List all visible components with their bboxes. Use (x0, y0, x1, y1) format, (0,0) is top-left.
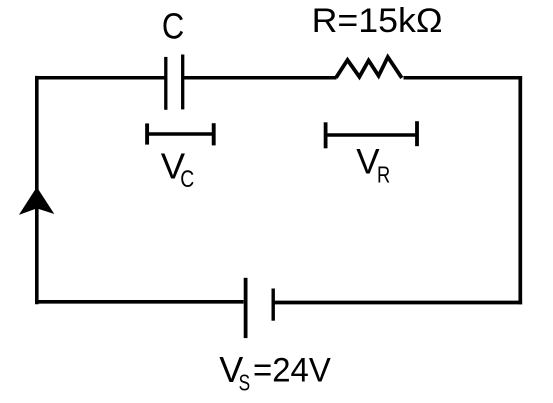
current direction arrow (19, 187, 54, 215)
V_C measurement bracket (147, 123, 214, 145)
voltage source VS (battery) (246, 278, 274, 338)
label VS=24V (219, 349, 330, 396)
label V_C (161, 145, 195, 193)
svg-text:=24V: =24V (253, 352, 331, 390)
svg-text:R: R (377, 161, 390, 187)
resistor R (336, 57, 402, 78)
svg-text:C: C (162, 6, 184, 47)
wire left side (35, 76, 39, 304)
wire top-right segment (404, 76, 523, 80)
wire bottom-right segment (273, 301, 522, 305)
svg-text:S: S (239, 370, 251, 396)
capacitor C (166, 55, 183, 110)
wire right side (518, 76, 522, 304)
wire bottom-left segment (35, 300, 244, 304)
label V_R (356, 142, 390, 187)
V_R measurement bracket (326, 121, 417, 148)
svg-text:C: C (180, 166, 194, 193)
svg-text:R=15kΩ: R=15kΩ (312, 2, 443, 40)
wire top-left segment (35, 76, 165, 80)
wire top-middle segment (184, 76, 337, 80)
